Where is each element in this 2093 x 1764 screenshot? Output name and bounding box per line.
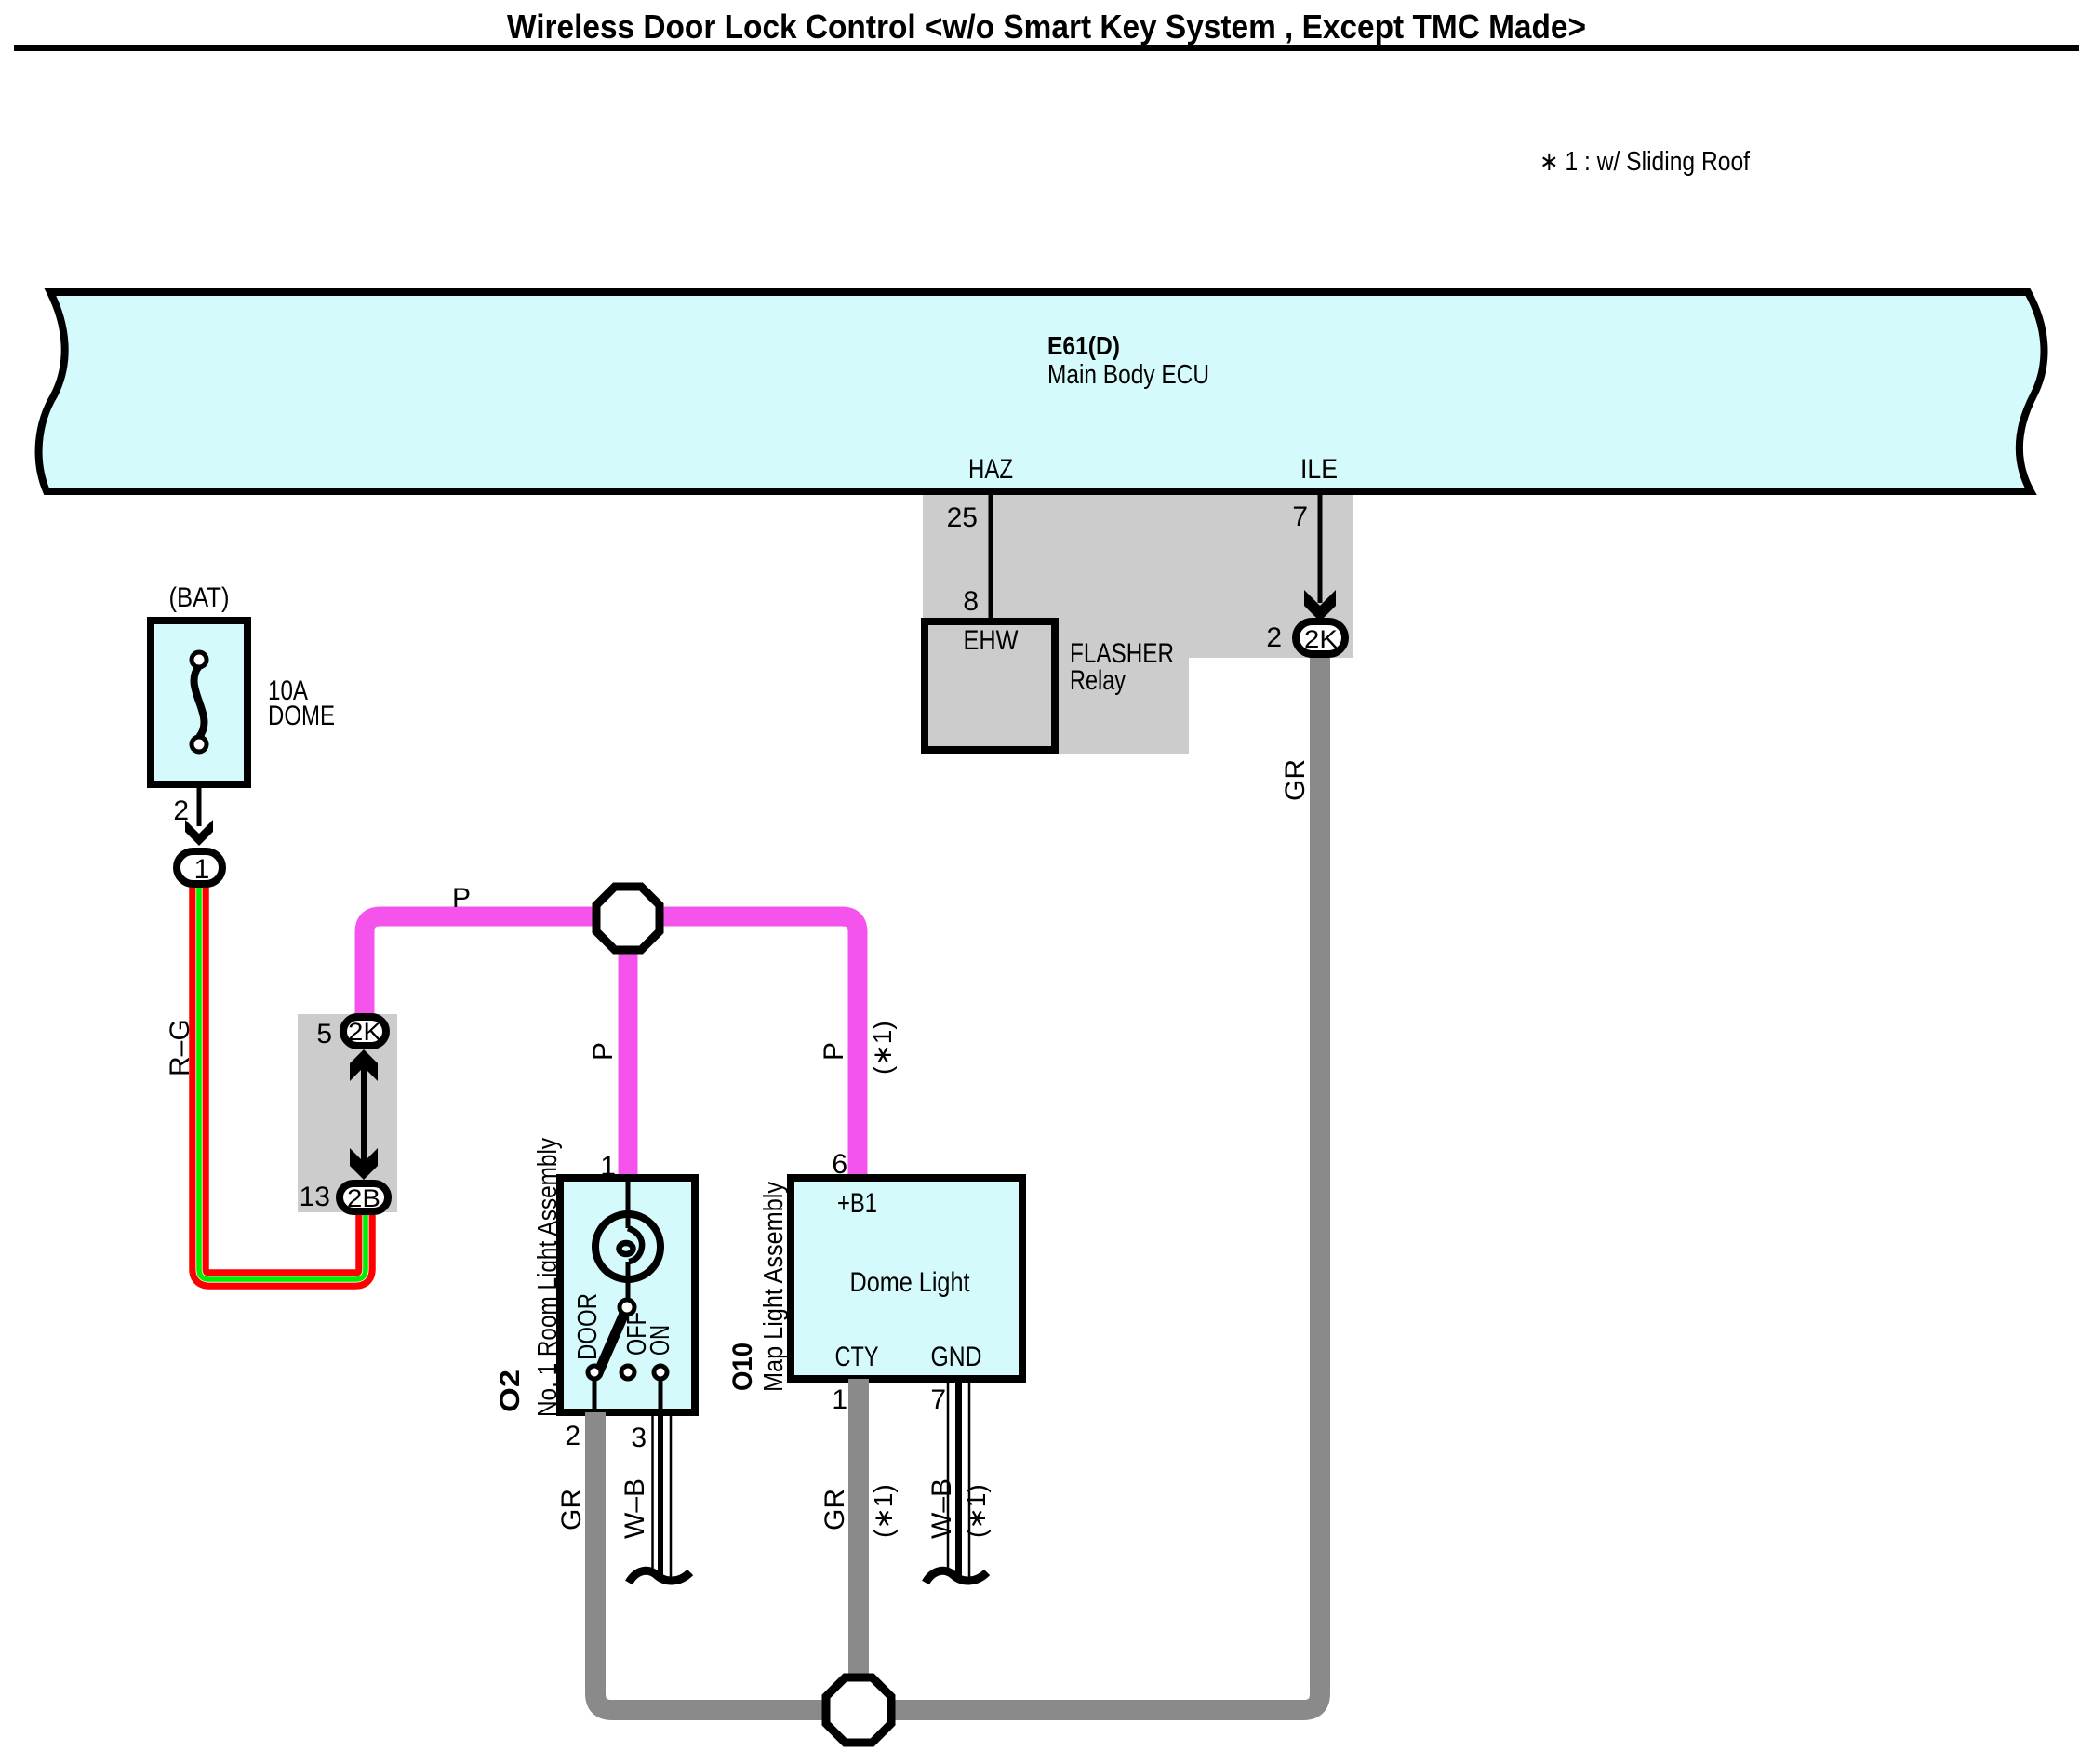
svg-text:2K: 2K	[348, 1018, 381, 1046]
wire W-B map light to ground	[948, 1379, 969, 1582]
svg-text:Main Body ECU: Main Body ECU	[1047, 360, 1209, 390]
connector 2B	[340, 1183, 388, 1211]
svg-text:∗ 1 : w/ Sliding Roof: ∗ 1 : w/ Sliding Roof	[1540, 147, 1751, 177]
wire HAZ pin25 to EHW pin8	[989, 495, 993, 618]
wire P pink: from 2K-5 up, across, down to lamps	[365, 916, 858, 1178]
main body ECU band E61(D)	[39, 292, 2045, 491]
svg-text:1: 1	[832, 1384, 847, 1415]
arrow into 2K	[1304, 590, 1336, 621]
lamp bulb	[595, 1214, 660, 1279]
gray relay background region	[923, 495, 1353, 754]
wire GR from 2K down to bottom junction	[595, 651, 1320, 1710]
connector 1	[177, 851, 222, 884]
wire GR room light to junction	[585, 1412, 606, 1451]
svg-text:7: 7	[1292, 501, 1308, 532]
svg-text:GR: GR	[1280, 759, 1311, 801]
svg-text:GR: GR	[820, 1489, 850, 1530]
contact ON	[654, 1366, 667, 1379]
switch pivot	[620, 1300, 634, 1315]
svg-text:W–B: W–B	[620, 1478, 650, 1539]
svg-text:GR: GR	[556, 1489, 587, 1530]
svg-text:25: 25	[947, 502, 978, 533]
double arrow 2K-2B	[361, 1065, 367, 1168]
svg-text:Map Light Assembly: Map Light Assembly	[759, 1182, 789, 1392]
wire ON contact to box bottom	[659, 1379, 663, 1412]
wire R-G from connector 1 to 2B	[199, 882, 366, 1279]
relay EHW box	[925, 621, 1055, 750]
fuse symbol	[194, 666, 205, 737]
contact OFF	[621, 1366, 634, 1379]
connector 2K (junction block)	[343, 1017, 386, 1046]
svg-text:2B: 2B	[347, 1184, 380, 1212]
junction octagon (P)	[596, 887, 660, 950]
svg-text:DOME: DOME	[268, 701, 335, 731]
wire GR map light to junction	[848, 1379, 869, 1710]
svg-text:ILE: ILE	[1300, 454, 1338, 485]
svg-text:5: 5	[316, 1019, 332, 1049]
arrow into connector 1	[185, 820, 213, 846]
svg-text:CTY: CTY	[835, 1342, 879, 1372]
wire DOOR contact to box bottom	[593, 1379, 597, 1412]
svg-text:(BAT): (BAT)	[169, 582, 230, 613]
svg-text:1: 1	[600, 1151, 616, 1182]
gray background behind 2K/2B connectors	[298, 1014, 397, 1212]
lamp wire top	[626, 1182, 631, 1228]
svg-text:HAZ: HAZ	[968, 454, 1013, 485]
svg-text:ON: ON	[646, 1325, 675, 1356]
svg-text:W–B: W–B	[927, 1478, 957, 1539]
svg-text:(∗1): (∗1)	[962, 1484, 991, 1538]
wire ILE pin7	[1318, 495, 1323, 603]
svg-text:2: 2	[1266, 622, 1282, 653]
svg-text:Wireless Door Lock Control <w/: Wireless Door Lock Control <w/o Smart Ke…	[507, 7, 1586, 46]
title underline	[14, 45, 2079, 51]
svg-text:O2: O2	[495, 1370, 526, 1412]
ground (room light)	[629, 1570, 690, 1583]
wire fuse pin2	[197, 788, 202, 826]
svg-text:R–G: R–G	[165, 1019, 195, 1076]
svg-text:DOOR: DOOR	[573, 1293, 603, 1360]
svg-text:2: 2	[565, 1421, 580, 1451]
svg-text:6: 6	[832, 1149, 847, 1180]
svg-text:P: P	[819, 1042, 849, 1061]
svg-text:No. 1 Room Light Assembly: No. 1 Room Light Assembly	[533, 1138, 563, 1417]
svg-text:2K: 2K	[1304, 625, 1338, 653]
svg-text:1: 1	[194, 854, 210, 885]
svg-text:P: P	[452, 883, 471, 914]
svg-text:(∗1): (∗1)	[869, 1484, 898, 1538]
svg-text:8: 8	[963, 586, 979, 617]
No.1 Room Light Assembly O2 box	[560, 1178, 695, 1412]
connector 2K (to ECU)	[1296, 621, 1345, 654]
svg-text:GND: GND	[931, 1342, 982, 1372]
lamp wire bottom	[626, 1262, 631, 1303]
fuse 10A DOME box	[151, 621, 247, 784]
svg-text:O10: O10	[727, 1343, 758, 1391]
svg-text:EHW: EHW	[964, 625, 1020, 656]
svg-text:+B1: +B1	[837, 1188, 877, 1219]
svg-text:E61(D): E61(D)	[1047, 331, 1120, 360]
svg-text:7: 7	[930, 1384, 946, 1415]
wire W-B room light to ground	[653, 1412, 672, 1582]
svg-text:13: 13	[300, 1182, 330, 1212]
Map Light Assembly O10 box	[791, 1178, 1022, 1379]
svg-text:P: P	[588, 1042, 619, 1061]
switch arm to DOOR	[597, 1314, 624, 1375]
svg-text:Dome Light: Dome Light	[850, 1267, 971, 1298]
svg-text:(∗1): (∗1)	[868, 1021, 897, 1075]
junction octagon (GR)	[826, 1677, 891, 1743]
svg-text:3: 3	[631, 1423, 647, 1453]
svg-text:Relay: Relay	[1070, 665, 1126, 696]
contact DOOR	[588, 1366, 601, 1379]
ground (map light)	[926, 1570, 987, 1583]
